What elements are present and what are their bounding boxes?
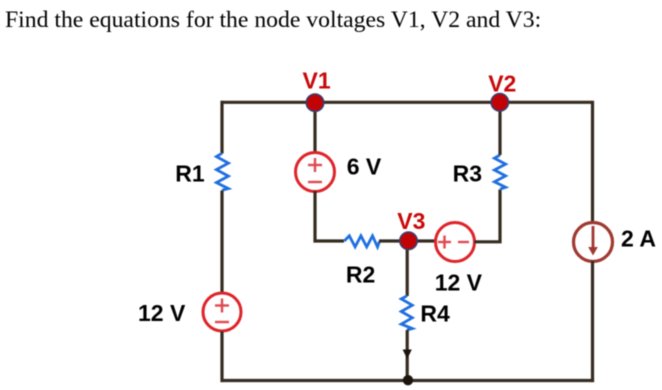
resistor R2 bbox=[344, 236, 379, 247]
wire R2 to V3 bbox=[379, 239, 408, 242]
svg-text:V3: V3 bbox=[397, 208, 425, 234]
svg-text:V1: V1 bbox=[303, 68, 331, 94]
svg-text:V2: V2 bbox=[488, 71, 516, 97]
svg-text:R3: R3 bbox=[453, 160, 482, 186]
wire left middle bbox=[220, 191, 223, 294]
wire bottom rail bbox=[221, 379, 594, 382]
wire right lower bbox=[591, 261, 594, 382]
svg-text:R2: R2 bbox=[346, 261, 375, 287]
svg-text:R4: R4 bbox=[420, 301, 450, 327]
wire 6V to middle rail bbox=[315, 191, 344, 241]
voltage source 12V middle bbox=[436, 223, 475, 262]
wire V2 stem bbox=[498, 102, 501, 155]
current source I 2A bbox=[574, 223, 613, 262]
arrowhead current reference bbox=[403, 350, 412, 360]
node V1 bbox=[306, 94, 323, 111]
svg-text:12 V: 12 V bbox=[435, 269, 483, 295]
node V3 bbox=[400, 232, 417, 249]
wire top (V1-V2 rail) bbox=[222, 101, 593, 104]
wire right upper bbox=[591, 101, 594, 224]
voltage source 12V left bbox=[203, 293, 241, 331]
svg-text:12 V: 12 V bbox=[138, 300, 186, 326]
junction dot bottom bbox=[403, 375, 413, 385]
wire V3 down bbox=[406, 241, 409, 296]
wire left lower bbox=[220, 332, 223, 383]
wire 12V to R3 branch corner bbox=[475, 190, 501, 242]
wire V1 stem bbox=[313, 102, 316, 153]
resistor R4 bbox=[401, 296, 412, 330]
resistor R1 bbox=[216, 153, 228, 190]
wire R4 down with reference arrow bbox=[406, 330, 409, 380]
svg-text:Find the equations for the nod: Find the equations for the node voltages… bbox=[5, 7, 541, 33]
node V2 bbox=[491, 94, 508, 111]
wire left upper bbox=[220, 101, 223, 154]
resistor R3 bbox=[494, 155, 505, 189]
wire V3 to 12V source bbox=[408, 239, 436, 242]
svg-text:2 A: 2 A bbox=[621, 226, 656, 252]
voltage source 6V bbox=[296, 153, 335, 192]
svg-text:R1: R1 bbox=[175, 160, 205, 186]
svg-text:6 V: 6 V bbox=[347, 153, 382, 179]
